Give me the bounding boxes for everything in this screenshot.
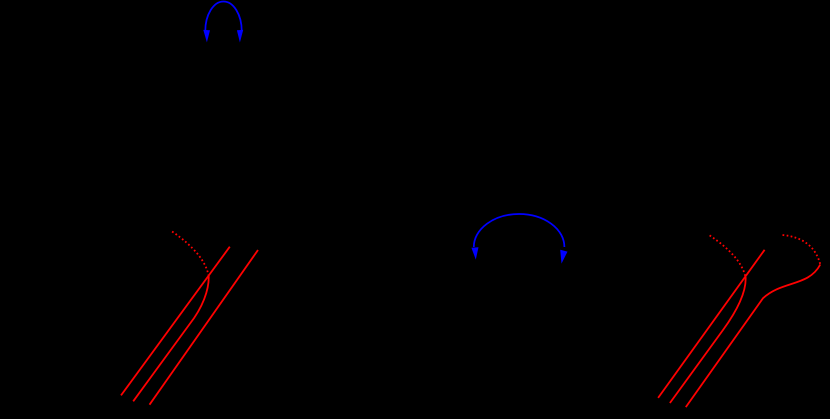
hook bond Rhook dotted part (783, 235, 821, 265)
diagonal bond L2 (150, 250, 259, 405)
dotted bond Ldot (172, 232, 209, 277)
red bond group L (bottom left) (121, 232, 258, 405)
dotted bond Rdot (710, 235, 746, 277)
diagonal bond R1 (658, 250, 765, 398)
curved bond Lmid (133, 276, 209, 401)
curved arrow A2 (wide blue double-headed arc, center) (471, 214, 567, 264)
hook bond Rhook solid part (686, 265, 821, 408)
diagonal bond L1 (121, 247, 230, 396)
curved arrow A1 (small blue double-headed arc, top left-center) (203, 1, 243, 42)
curved bond Rmid (670, 277, 746, 403)
red bond group R (bottom right) (658, 235, 820, 407)
